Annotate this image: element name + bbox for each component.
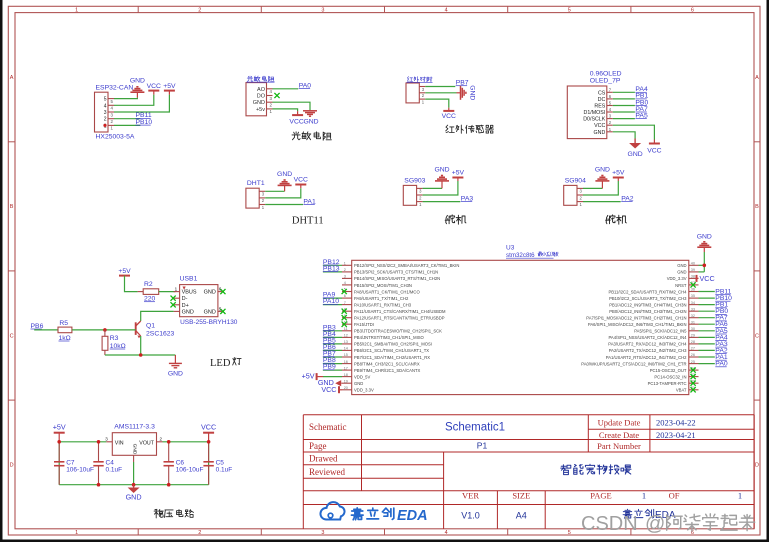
- svg-text:PC14-OSC32_IN: PC14-OSC32_IN: [654, 374, 686, 379]
- svg-text:VCC: VCC: [442, 113, 456, 120]
- svg-text:PB7/I2C1_SDA/TIM4_CH2/USART1_R: PB7/I2C1_SDA/TIM4_CH2/USART1_RX: [354, 355, 430, 360]
- svg-text:2: 2: [104, 117, 107, 123]
- svg-text:PB12/SPI2_NSS/I2C2_SMBAI/USART: PB12/SPI2_NSS/I2C2_SMBAI/USART3_CK/TIM1_…: [354, 263, 459, 268]
- svg-text:Reviewed: Reviewed: [309, 467, 345, 477]
- svg-text:GND: GND: [253, 100, 265, 106]
- svg-text:D1/MOSI: D1/MOSI: [584, 110, 606, 116]
- svg-text:PA12/USART1_RTS/CANTX/TIM1_ETR: PA12/USART1_RTS/CANTX/TIM1_ETR/USBDP: [354, 316, 445, 321]
- svg-text:VCC: VCC: [321, 385, 336, 394]
- svg-text:GND: GND: [595, 167, 610, 174]
- svg-text:4: 4: [104, 103, 107, 109]
- svg-text:PAGE: PAGE: [590, 491, 611, 501]
- svg-text:+5V: +5V: [612, 170, 625, 177]
- svg-text:1: 1: [642, 491, 646, 501]
- svg-text:VDD_3.3V: VDD_3.3V: [354, 388, 374, 393]
- svg-text:CS: CS: [598, 90, 606, 96]
- svg-text:SG903: SG903: [404, 177, 425, 184]
- svg-text:R3: R3: [110, 335, 119, 342]
- svg-text:1: 1: [344, 262, 346, 266]
- svg-text:U3: U3: [506, 245, 515, 252]
- svg-text:GND: GND: [628, 151, 643, 158]
- svg-text:A: A: [10, 75, 14, 81]
- svg-text:39: 39: [691, 268, 695, 272]
- svg-text:36: 36: [691, 288, 695, 292]
- svg-text:5: 5: [104, 97, 107, 103]
- svg-text:C5: C5: [216, 460, 225, 467]
- svg-text:Schematic1: Schematic1: [445, 422, 505, 434]
- svg-text:31: 31: [691, 320, 695, 324]
- svg-text:106-10uF: 106-10uF: [176, 467, 204, 474]
- svg-text:DO: DO: [257, 94, 266, 100]
- svg-text:11: 11: [344, 327, 348, 331]
- svg-text:16: 16: [344, 360, 348, 364]
- svg-text:19: 19: [344, 379, 348, 383]
- svg-text:C7: C7: [66, 460, 75, 467]
- svg-text:PA4/SPI1_NSS/USART2_CK/ADC12_I: PA4/SPI1_NSS/USART2_CK/ADC12_IN4: [608, 335, 687, 340]
- svg-text:R5: R5: [59, 320, 68, 327]
- svg-text:GND: GND: [677, 270, 686, 275]
- svg-text:PA8/USART1_CK/TIM1_CH1/MCO: PA8/USART1_CK/TIM1_CH1/MCO: [354, 289, 420, 294]
- svg-text:VCC: VCC: [647, 148, 661, 155]
- svg-text:6: 6: [691, 8, 694, 14]
- svg-text:4: 4: [445, 530, 448, 536]
- svg-text:40: 40: [691, 262, 695, 266]
- svg-text:Drawed: Drawed: [309, 454, 338, 464]
- svg-text:+5V: +5V: [53, 423, 66, 432]
- svg-text:PB6/I2C1_SCL/TIM4_CH1/USART1_T: PB6/I2C1_SCL/TIM4_CH1/USART1_TX: [354, 348, 429, 353]
- svg-text:A: A: [755, 75, 759, 81]
- svg-text:PB9/TIM4_CHR/I2C1_SDA/CANTX: PB9/TIM4_CHR/I2C1_SDA/CANTX: [354, 368, 421, 373]
- svg-text:RES: RES: [594, 104, 605, 110]
- svg-text:GND: GND: [303, 118, 318, 125]
- svg-text:HX25003-5A: HX25003-5A: [96, 134, 135, 141]
- svg-text:27: 27: [691, 347, 695, 351]
- svg-text:VIN: VIN: [115, 440, 124, 446]
- svg-text:38: 38: [691, 275, 695, 279]
- svg-text:2: 2: [344, 268, 346, 272]
- svg-text:A4: A4: [516, 511, 527, 521]
- svg-text:PA10/USART1_RX/TIM1_CH3: PA10/USART1_RX/TIM1_CH3: [354, 302, 412, 307]
- svg-text:GND: GND: [204, 290, 216, 296]
- svg-text:SIZE: SIZE: [512, 491, 530, 501]
- svg-text:VCC: VCC: [700, 274, 715, 283]
- svg-text:VBUS: VBUS: [182, 290, 197, 296]
- svg-text:Update Date: Update Date: [598, 418, 641, 428]
- svg-text:GND: GND: [130, 78, 145, 85]
- svg-text:2: 2: [198, 530, 201, 536]
- svg-text:5: 5: [568, 8, 571, 14]
- svg-text:GND: GND: [354, 381, 363, 386]
- svg-text:PA0/WKUP/USART2_CTS/ADC12_IN0/: PA0/WKUP/USART2_CTS/ADC12_IN0/TIM2_CH1_E…: [581, 361, 686, 366]
- svg-text:C: C: [10, 333, 14, 339]
- svg-text:D+: D+: [182, 303, 189, 309]
- svg-text:7: 7: [344, 301, 346, 305]
- svg-text:3: 3: [104, 110, 107, 116]
- svg-text:26: 26: [691, 353, 695, 357]
- svg-text:USB1: USB1: [180, 276, 198, 283]
- svg-text:2: 2: [198, 8, 201, 14]
- svg-text:0.96OLED: 0.96OLED: [590, 71, 622, 78]
- svg-text:C6: C6: [176, 460, 185, 467]
- svg-text:17: 17: [344, 366, 348, 370]
- svg-text:PB0/ADC12_IN8/TIM3_CH3/TIM1_CH: PB0/ADC12_IN8/TIM3_CH3/TIM1_CH2N: [609, 309, 686, 314]
- svg-text:VCC: VCC: [201, 423, 216, 432]
- svg-text:33: 33: [691, 307, 695, 311]
- svg-text:ESP32-CAN: ESP32-CAN: [96, 85, 134, 92]
- svg-text:D: D: [10, 462, 14, 468]
- svg-text:VDD_5V: VDD_5V: [354, 374, 370, 379]
- svg-text:GND: GND: [182, 309, 194, 315]
- svg-text:GND: GND: [697, 234, 712, 241]
- svg-text:PB10/I2C2_SCL/USART3_TX/TIM2_C: PB10/I2C2_SCL/USART3_TX/TIM2_CH3: [609, 296, 687, 301]
- svg-text:30: 30: [691, 327, 695, 331]
- svg-text:GND: GND: [594, 130, 606, 136]
- svg-text:VCC: VCC: [594, 123, 605, 129]
- svg-text:1: 1: [738, 491, 742, 501]
- svg-text:PB5/I2C1_SMBAI/TIM3_CH2/SPI1_M: PB5/I2C1_SMBAI/TIM3_CH2/SPI1_MOSI: [354, 342, 432, 347]
- svg-text:GND: GND: [277, 171, 292, 178]
- svg-text:Q1: Q1: [146, 323, 155, 330]
- svg-text:1: 1: [75, 530, 78, 536]
- svg-text:+5V: +5V: [302, 372, 315, 381]
- svg-text:15: 15: [344, 353, 348, 357]
- svg-text:2023-04-21: 2023-04-21: [656, 430, 696, 440]
- svg-text:3: 3: [344, 275, 346, 279]
- svg-text:29: 29: [691, 334, 695, 338]
- svg-text:D: D: [755, 462, 759, 468]
- svg-text:USB-255-BRYH130: USB-255-BRYH130: [180, 319, 238, 326]
- svg-text:PB14/SPI2_MISO/USART3_RTS/TIM1: PB14/SPI2_MISO/USART3_RTS/TIM1_CH2N: [354, 276, 440, 281]
- svg-text:DHT11: DHT11: [292, 215, 324, 226]
- svg-text:32: 32: [691, 314, 695, 318]
- svg-text:V1.0: V1.0: [461, 511, 480, 521]
- svg-text:VER: VER: [462, 491, 479, 501]
- svg-text:PA9/USART1_TX/TIM1_CH2: PA9/USART1_TX/TIM1_CH2: [354, 296, 409, 301]
- svg-text:12: 12: [344, 334, 348, 338]
- svg-text:5: 5: [568, 530, 571, 536]
- svg-text:PB3/JTDO/TRACESWO/TIM2_CH2/SPI: PB3/JTDO/TRACESWO/TIM2_CH2/SPI1_SCK: [354, 329, 442, 334]
- svg-text:PB15/SPI2_MOSI/TIM1_CH3N: PB15/SPI2_MOSI/TIM1_CH3N: [354, 283, 412, 288]
- svg-text:D-: D-: [182, 296, 188, 302]
- svg-text:R2: R2: [144, 281, 153, 288]
- svg-text:106-10uF: 106-10uF: [66, 467, 94, 474]
- svg-text:PA1/USART2_RTS/ADC12_IN1/TIM2_: PA1/USART2_RTS/ADC12_IN1/TIM2_CH2: [606, 355, 687, 360]
- svg-text:PA3/USART2_RX/ADC12_IN3/TIM2_C: PA3/USART2_RX/ADC12_IN3/TIM2_CH4: [608, 342, 687, 347]
- svg-text:VOUT: VOUT: [139, 440, 154, 446]
- svg-text:GND: GND: [204, 309, 216, 315]
- svg-text:3: 3: [321, 8, 324, 14]
- svg-text:+5V: +5V: [118, 268, 131, 275]
- svg-text:@: @: [645, 513, 665, 535]
- svg-text:PC13-TAMPER-RTC: PC13-TAMPER-RTC: [648, 381, 687, 386]
- svg-text:PA7/SPI1_MOSI/ADC12_IN7/TIM3_C: PA7/SPI1_MOSI/ADC12_IN7/TIM3_CH2/TIM1_CH…: [586, 316, 686, 321]
- svg-text:4: 4: [344, 281, 346, 285]
- svg-text:6: 6: [344, 294, 346, 298]
- svg-text:Create Date: Create Date: [599, 430, 640, 440]
- svg-text:18: 18: [344, 373, 348, 377]
- svg-text:AO: AO: [257, 87, 266, 93]
- svg-text:PB11/I2C2_SDA/USART3_RX/TIM2_C: PB11/I2C2_SDA/USART3_RX/TIM2_CH4: [608, 289, 687, 294]
- svg-text:GND: GND: [126, 492, 142, 501]
- svg-text:+5V: +5V: [452, 170, 465, 177]
- svg-text:EDA: EDA: [397, 508, 428, 524]
- svg-text:PA6/SPI1_MISO/ADC12_IN6/TIM3_C: PA6/SPI1_MISO/ADC12_IN6/TIM3_CH1/TIM1_BK…: [588, 322, 687, 327]
- svg-text:25: 25: [691, 360, 695, 364]
- svg-text:2023-04-22: 2023-04-22: [656, 418, 696, 428]
- svg-text:VDD_3.3V: VDD_3.3V: [667, 276, 687, 281]
- svg-text:C: C: [755, 333, 759, 339]
- svg-text:VCC: VCC: [289, 118, 303, 125]
- svg-text:PB13/SPI2_SCK/USART3_CTS/TIM1_: PB13/SPI2_SCK/USART3_CTS/TIM1_CH1N: [354, 270, 438, 275]
- svg-text:PA5/SPI1_SCK/ADC12_IN5: PA5/SPI1_SCK/ADC12_IN5: [634, 329, 687, 334]
- svg-text:AMS1117-3.3: AMS1117-3.3: [114, 424, 155, 431]
- svg-text:GND: GND: [168, 371, 183, 378]
- svg-text:D0/SCLK: D0/SCLK: [583, 117, 606, 123]
- svg-text:PA15/JTDI: PA15/JTDI: [354, 322, 374, 327]
- svg-text:B: B: [755, 204, 759, 210]
- svg-text:2SC1623: 2SC1623: [146, 331, 175, 338]
- svg-text:PA2/USART2_TX/ADC12_IN2/TIM2_C: PA2/USART2_TX/ADC12_IN2/TIM2_CH3: [609, 348, 687, 353]
- svg-text:28: 28: [691, 340, 695, 344]
- svg-text:Part Number: Part Number: [597, 441, 641, 451]
- svg-text:+5V: +5V: [163, 83, 176, 90]
- svg-text:1: 1: [75, 8, 78, 14]
- svg-text:PB1/ADC12_IN9/TIM3_CH4/TIM1_CH: PB1/ADC12_IN9/TIM3_CH4/TIM1_CH3N: [609, 302, 686, 307]
- svg-text:OF: OF: [669, 491, 680, 501]
- svg-text:Schematic: Schematic: [309, 422, 347, 432]
- svg-text:0.1uF: 0.1uF: [216, 467, 233, 474]
- svg-text:4: 4: [445, 8, 448, 14]
- svg-text:CSDN: CSDN: [581, 513, 638, 535]
- svg-text:13: 13: [344, 340, 348, 344]
- svg-text:P1: P1: [477, 440, 488, 450]
- svg-text:PC15-OSC32_OUT: PC15-OSC32_OUT: [650, 368, 687, 373]
- svg-text:14: 14: [344, 347, 348, 351]
- svg-text:35: 35: [691, 294, 695, 298]
- svg-text:0.1uF: 0.1uF: [106, 467, 123, 474]
- svg-text:3: 3: [321, 530, 324, 536]
- svg-text:DHT1: DHT1: [247, 180, 265, 187]
- svg-text:LED: LED: [210, 358, 231, 369]
- svg-text:C4: C4: [106, 460, 115, 467]
- svg-text:20: 20: [344, 386, 348, 390]
- svg-text:+5v: +5v: [256, 107, 265, 113]
- svg-text:VCC: VCC: [147, 83, 161, 90]
- svg-text:VBAT: VBAT: [676, 388, 687, 393]
- svg-text:VCC: VCC: [294, 177, 308, 184]
- svg-text:NRST: NRST: [675, 283, 687, 288]
- svg-text:PB8/TIM4_CH3/I2C1_SCL/CANRX: PB8/TIM4_CH3/I2C1_SCL/CANRX: [354, 361, 420, 366]
- svg-text:PA11/USART1_CTS/CANRX/TIM1_CH4: PA11/USART1_CTS/CANRX/TIM1_CH4/USBDM: [354, 309, 446, 314]
- svg-text:SG904: SG904: [565, 177, 586, 184]
- svg-text:OLED_7P: OLED_7P: [590, 78, 621, 85]
- svg-text:GND: GND: [131, 444, 137, 455]
- svg-text:stm32c8t6: stm32c8t6: [506, 252, 535, 259]
- svg-text:DC: DC: [598, 97, 606, 103]
- svg-text:34: 34: [691, 301, 695, 305]
- svg-text:GND: GND: [677, 263, 686, 268]
- svg-text:GND: GND: [434, 167, 449, 174]
- svg-text:Page: Page: [309, 441, 327, 451]
- svg-text:GND: GND: [469, 85, 476, 100]
- svg-text:PB4/JNTRST/TIM3_CH1/SPI1_MISO: PB4/JNTRST/TIM3_CH1/SPI1_MISO: [354, 335, 425, 340]
- svg-text:B: B: [10, 204, 14, 210]
